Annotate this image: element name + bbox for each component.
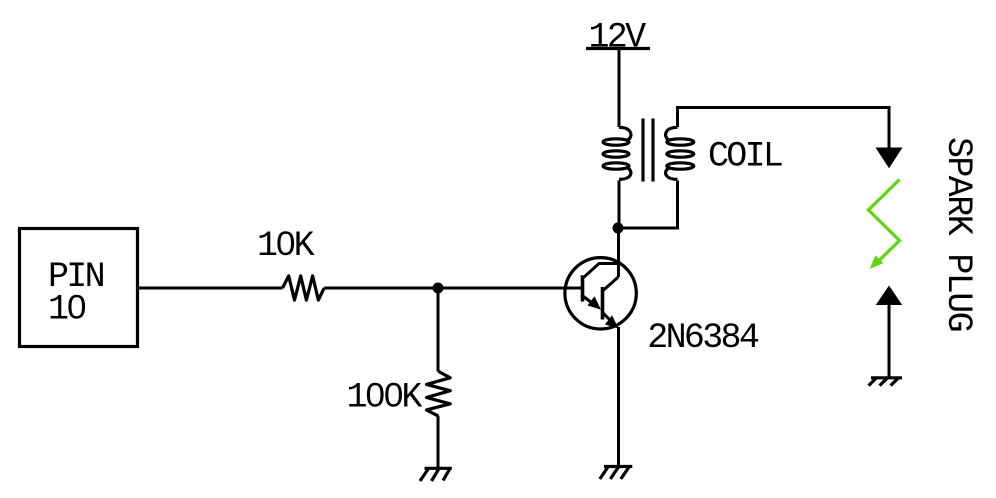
transistor Q1 2N6384 circle <box>565 258 636 329</box>
inductor L2 secondary winding <box>666 127 694 179</box>
ground chassis (100K) <box>420 468 452 481</box>
wire 100K to ground <box>437 416 440 468</box>
svg-text:10: 10 <box>48 290 85 330</box>
svg-text:2N6384: 2N6384 <box>647 318 759 358</box>
junction node collector <box>613 223 624 234</box>
ground chassis (emitter) <box>600 467 633 480</box>
darlington internal: Q1 base bar <box>581 275 585 301</box>
transformer core <box>643 119 653 182</box>
darlington internal: Q1 emitter with arrow <box>584 297 595 305</box>
wire emitter to ground <box>617 327 620 467</box>
wire spark plug electrode to ground <box>888 303 891 378</box>
wire primary bottom to node <box>618 181 621 229</box>
wire resistor to base node <box>324 287 438 290</box>
zero glyph dot patches <box>371 390 378 397</box>
spark gap (green lightning bolt) <box>869 180 900 270</box>
arrowhead down to spark gap <box>876 148 903 169</box>
svg-text:SPARK PLUG: SPARK PLUG <box>938 137 978 331</box>
box PIN 10 <box>20 229 138 347</box>
ground chassis (spark plug) <box>869 378 902 386</box>
resistor R2 100K <box>427 371 451 416</box>
junction node base <box>433 283 444 294</box>
wire box to resistor R1 <box>139 287 283 290</box>
zero glyph dot patch <box>282 239 289 246</box>
svg-text:10K: 10K <box>257 226 315 266</box>
arrowhead up spark plug electrode <box>876 286 902 306</box>
power rail underline <box>586 47 650 50</box>
svg-text:100K: 100K <box>347 377 423 417</box>
wire node to transistor base <box>438 287 581 290</box>
wire node to 100K resistor <box>437 288 440 372</box>
darlington internal: Q1 collector path <box>584 264 619 278</box>
wire secondary top to spark plug <box>678 108 890 152</box>
wire secondary bottom to node <box>619 181 678 229</box>
svg-text:12V: 12V <box>589 17 647 57</box>
resistor R1 10K <box>283 276 325 300</box>
darlington internal: Q2 base bar <box>601 287 605 320</box>
collector wire from node into transistor <box>617 228 620 277</box>
svg-text:COIL: COIL <box>708 137 782 177</box>
zero glyph dot patch <box>73 302 80 309</box>
inductor L1 primary winding <box>603 127 631 179</box>
wire 12V rail to primary coil <box>618 49 621 128</box>
darlington internal: Q2 emitter with arrow <box>603 313 611 321</box>
darlington internal: Q2 collector diagonal <box>603 277 619 291</box>
